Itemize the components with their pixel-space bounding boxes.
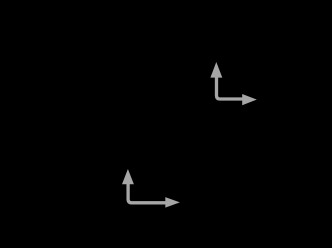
wire: L-shaped shaft of triad 2 bbox=[128, 184, 166, 203]
wire: L-shaped shaft of triad 1 bbox=[217, 77, 243, 100]
X-axis arrowhead of triad 2 bbox=[165, 197, 180, 208]
coordinate triad 1 (upper right) bbox=[210, 62, 256, 105]
Y-axis arrowhead of triad 1 bbox=[210, 62, 222, 78]
X-axis arrowhead of triad 1 bbox=[242, 94, 257, 105]
coordinate triad 2 (lower left) bbox=[122, 169, 180, 208]
Y-axis arrowhead of triad 2 bbox=[122, 169, 134, 184]
